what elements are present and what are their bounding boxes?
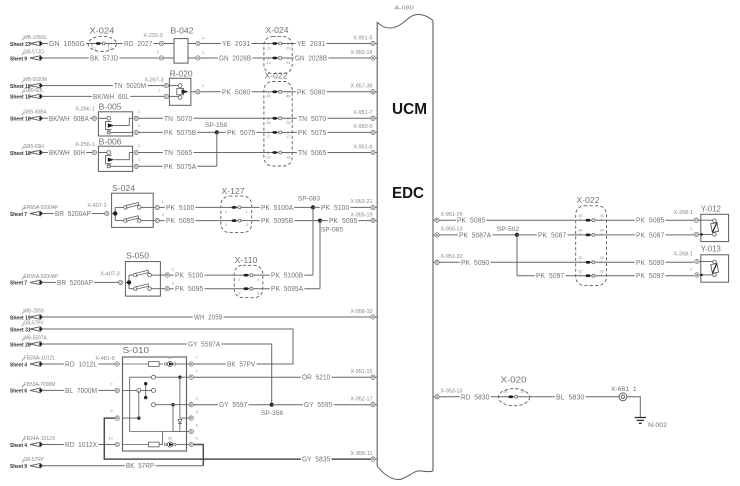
wire PK 5085 (to Y-012) (607, 216, 694, 225)
svg-text:GN 1050G: GN 1050G (49, 39, 85, 48)
svg-text:Y-013: Y-013 (701, 244, 721, 254)
svg-text:GY 5597: GY 5597 (219, 400, 247, 409)
connector X-110 (234, 255, 263, 297)
svg-text:TN 5070: TN 5070 (298, 114, 326, 123)
wire YE 2031 (to X-024) (200, 39, 264, 48)
pin 2 of R-020 (191, 83, 205, 94)
svg-text:PK 5095: PK 5095 (166, 216, 194, 225)
svg-text:PK 5075: PK 5075 (298, 128, 326, 137)
sheet ref 9 GB-57RP (10, 457, 44, 470)
svg-text:GY 5597A: GY 5597A (188, 340, 220, 349)
pin 2 of B-006 (134, 143, 141, 155)
svg-text:SP-083: SP-083 (298, 195, 321, 202)
wire BK 57RP (pin 9 route) (42, 445, 204, 471)
svg-text:X-110: X-110 (235, 255, 258, 265)
valve Y-013 (700, 244, 728, 283)
svg-text:17: 17 (286, 134, 291, 139)
svg-text:PK 5100: PK 5100 (321, 203, 349, 212)
pin 3 of S-050 (160, 280, 174, 291)
sheet ref 9 GB-57JD (10, 49, 44, 62)
svg-text:Sheet 4: Sheet 4 (10, 443, 28, 449)
svg-text:YE 2031: YE 2031 (222, 39, 250, 48)
pin 1 of S-010 (187, 368, 199, 379)
connector X-950-6 (band stub) (353, 124, 377, 134)
pressure sensor B-006 (98, 136, 132, 171)
wire TN 5070 (to UCM) (292, 114, 371, 123)
svg-text:X-268-1: X-268-1 (674, 251, 694, 257)
svg-text:PK 5090: PK 5090 (636, 258, 664, 267)
svg-text:Sheet 7: Sheet 7 (10, 281, 27, 287)
svg-text:PK 5097: PK 5097 (636, 271, 664, 280)
pin 2 of S-010 (110, 381, 119, 392)
connector X-951-15 (band stub) (351, 369, 378, 379)
resistor unit R-020 (169, 69, 193, 106)
pin 7 of S-010 (187, 355, 199, 366)
splice SP-502 (497, 226, 520, 276)
svg-text:X-020: X-020 (501, 375, 527, 385)
svg-text:A-080: A-080 (394, 6, 414, 12)
wire PK 5095 (to UCM) (320, 216, 371, 225)
valve Y-012 (700, 203, 728, 241)
connector X-407-2 pin (87, 203, 109, 216)
connector X-956-10 (band stub) (351, 309, 378, 319)
pin 3 of B-005 (134, 123, 141, 134)
sheet ref 18 GB5-60H (10, 144, 44, 157)
connector X-024 (first) (88, 26, 116, 52)
pin 2 (X-233) (157, 49, 174, 60)
wire PK 5100 (to X-127) (160, 203, 221, 212)
sheet ref 28 WB-5597A (10, 335, 47, 348)
svg-text:34: 34 (599, 228, 604, 233)
svg-text:X-407-2: X-407-2 (87, 203, 106, 209)
pin 3 of S-024 (153, 212, 164, 223)
svg-text:Sheet 9: Sheet 9 (10, 464, 28, 470)
svg-text:TN 5020M: TN 5020M (114, 81, 146, 90)
svg-text:GB-57RP: GB-57RP (24, 457, 45, 463)
svg-text:GN 2028B: GN 2028B (219, 54, 251, 63)
svg-text:24: 24 (286, 60, 291, 65)
svg-text:X-951-15: X-951-15 (351, 369, 373, 375)
wire RD 5830 (439, 392, 498, 401)
svg-text:BK 57PV: BK 57PV (227, 360, 255, 369)
wire BL 7000M (42, 386, 115, 395)
svg-text:PK 5090: PK 5090 (461, 258, 489, 267)
connector X-953-21 (band stub) (351, 199, 378, 209)
switch S-050 (125, 251, 160, 297)
sheet ref 19 WB-2059 (10, 308, 44, 321)
svg-text:PK 5075: PK 5075 (227, 128, 255, 137)
svg-text:GB5-60H: GB5-60H (24, 144, 45, 150)
svg-text:28: 28 (286, 154, 291, 159)
svg-text:BK/WH 60BA: BK/WH 60BA (49, 114, 89, 123)
svg-text:Sheet 31: Sheet 31 (10, 327, 31, 333)
svg-text:WH 2059: WH 2059 (194, 313, 222, 322)
connector X-950-16 (band stub) (351, 50, 378, 60)
svg-text:BL 7000M: BL 7000M (65, 386, 97, 395)
svg-text:FB24A-1012L: FB24A-1012L (24, 355, 56, 361)
svg-text:GY 5595: GY 5595 (304, 400, 332, 409)
connector X-268-1 pin (Y-012) (674, 210, 701, 222)
connector X-268-1 pin (Y-013) (674, 251, 701, 263)
svg-text:BL 5830: BL 5830 (556, 392, 584, 401)
svg-text:PK 5095A: PK 5095A (271, 284, 303, 293)
svg-text:X-268-1: X-268-1 (674, 210, 694, 216)
svg-text:Sheet 4: Sheet 4 (10, 362, 28, 368)
svg-text:X-661 1: X-661 1 (611, 386, 637, 393)
svg-text:GY 5835: GY 5835 (302, 455, 330, 464)
svg-text:BK/WH 60H: BK/WH 60H (49, 148, 85, 157)
connector X-233-3 pin (143, 33, 174, 46)
wire PK 5100 (to UCM) (313, 203, 371, 212)
sheet ref 4 FB24A-1012X (10, 436, 56, 449)
svg-text:WB-5020M: WB-5020M (24, 77, 47, 83)
relay B-042 (171, 26, 194, 64)
wire PK 5087A (439, 230, 517, 239)
wire PK 5097 (to X-022) (517, 271, 576, 280)
connector X-957-36 (band stub) (351, 84, 378, 94)
wire BK 57PV (sheet 31 to S-010 pin 7) (42, 329, 294, 369)
wire RD 2027 (116, 39, 158, 48)
splice SP-085 (318, 219, 344, 289)
wire GY 5835 (pin 5 route) (104, 418, 370, 464)
wire PK 5100A (252, 203, 313, 212)
svg-text:13: 13 (266, 45, 271, 50)
svg-text:X-955-19: X-955-19 (351, 212, 373, 218)
svg-text:X-953-13: X-953-13 (441, 389, 463, 395)
svg-text:RD 2027: RD 2027 (124, 39, 152, 48)
svg-text:RD 1012X: RD 1012X (65, 440, 97, 449)
svg-text:X-951-6: X-951-6 (353, 144, 372, 150)
wire TN 5070 (to X-022) (139, 114, 264, 123)
splice SP-158 (205, 122, 228, 167)
wire BL 5830 (530, 392, 620, 401)
sheet ref 31 GB-57PV (10, 320, 44, 333)
connector X-952-17 (band stub) (351, 397, 378, 407)
wire TN 5065 (to X-022) (139, 148, 264, 157)
svg-text:S-010: S-010 (123, 345, 150, 355)
wire YE 2031 (to UCM) (292, 39, 371, 48)
svg-text:PK 5095: PK 5095 (175, 284, 203, 293)
wire PK 5095 (to X-110) (170, 284, 235, 293)
wire PK 5100 (to X-110) (170, 271, 235, 280)
svg-text:PK 5100B: PK 5100B (271, 271, 303, 280)
svg-text:34: 34 (578, 228, 583, 233)
wire PK 5100B (263, 271, 313, 280)
svg-text:35: 35 (578, 213, 583, 218)
svg-text:X-022: X-022 (577, 195, 600, 205)
sheet ref 18 GB5-60L (10, 88, 44, 101)
wire PK 5075 (to UCM) (292, 128, 371, 137)
splice SP-083 (298, 195, 321, 275)
wire TN 5065 (to UCM) (292, 148, 371, 157)
ground N-002 (635, 418, 668, 430)
svg-text:SP-158: SP-158 (205, 122, 228, 129)
wire GY 5597 (194, 400, 272, 409)
pin 1 of R-020 (158, 88, 168, 99)
svg-text:PK 5087A: PK 5087A (459, 230, 491, 239)
svg-text:B-005: B-005 (99, 102, 122, 112)
wire RD 1012X (42, 440, 115, 449)
splice SP-356 (261, 403, 284, 418)
svg-text:PK 5080: PK 5080 (222, 87, 250, 96)
svg-text:PK 5080: PK 5080 (297, 87, 325, 96)
svg-text:26: 26 (286, 120, 291, 125)
svg-text:GN 2028B: GN 2028B (295, 54, 327, 63)
sheet ref 4 FB24A-1012L (10, 355, 56, 368)
pin 2 of Y-012 (690, 226, 701, 237)
svg-text:PK 5100: PK 5100 (175, 271, 203, 280)
svg-text:X-127: X-127 (222, 186, 245, 196)
wire GN 1050G (42, 39, 89, 48)
svg-text:32: 32 (578, 269, 583, 274)
svg-text:10: 10 (108, 435, 113, 440)
pin 9 of S-010 (187, 435, 199, 446)
svg-text:33: 33 (578, 255, 583, 260)
svg-text:Sheet 7: Sheet 7 (10, 212, 27, 218)
svg-text:YE 2031: YE 2031 (297, 39, 325, 48)
wire PK 5087 (to Y-012 pin 2) (607, 230, 694, 239)
pressure sensor B-005 (98, 102, 132, 136)
svg-text:Sheet 6: Sheet 6 (10, 389, 28, 395)
wire GY 5595 (272, 400, 371, 409)
svg-text:TN 5070: TN 5070 (164, 114, 192, 123)
svg-text:PK 5085: PK 5085 (457, 216, 485, 225)
svg-text:X-957-36: X-957-36 (351, 84, 373, 90)
svg-text:Y-012: Y-012 (701, 203, 721, 213)
svg-text:FB24A-1012X: FB24A-1012X (24, 436, 56, 442)
connector X-951-29 (band stub) (433, 212, 463, 222)
pin 3 of B-006 (134, 157, 141, 168)
svg-text:12: 12 (91, 46, 96, 51)
connector X-955-19 (band stub) (351, 212, 378, 222)
svg-text:PK 5100: PK 5100 (166, 203, 194, 212)
svg-text:Sheet 9: Sheet 9 (10, 56, 28, 62)
wire PK 5075 (to X-022) (217, 128, 264, 137)
svg-text:Sheet 23: Sheet 23 (10, 42, 31, 48)
sheet ref 18 WB-5020M (10, 77, 47, 90)
wire GY 5597A (42, 340, 272, 405)
svg-text:Sheet 28: Sheet 28 (10, 342, 31, 348)
connector X-950-13 (band stub) (433, 227, 463, 237)
svg-text:PK 5075A: PK 5075A (164, 162, 196, 171)
svg-text:RD 5830: RD 5830 (461, 392, 489, 401)
pin 3 of S-010 (187, 396, 199, 407)
wire PK 5075B (139, 128, 217, 137)
svg-text:46: 46 (266, 94, 271, 99)
connector X-951-7 (band stub) (353, 110, 377, 120)
svg-text:39: 39 (520, 389, 525, 394)
wire PK 5090 (to X-022) (439, 258, 575, 267)
svg-text:X-955-11: X-955-11 (351, 451, 373, 457)
svg-text:PK 5097: PK 5097 (536, 271, 564, 280)
svg-text:PK 5087: PK 5087 (636, 230, 664, 239)
pin 1 of B-042 (188, 50, 205, 60)
wire GN 2028B (to X-024) (200, 54, 264, 63)
wire GN 2028B (to UCM) (292, 54, 371, 63)
sheet ref 6 FB53A-7000M (10, 382, 55, 395)
pin 2 of Y-013 (690, 267, 701, 278)
wire BK/WH 60L (42, 92, 165, 101)
svg-text:Sheet 18: Sheet 18 (10, 117, 31, 123)
wire BK 57JD (42, 54, 159, 63)
svg-text:BK/WH 60L: BK/WH 60L (93, 92, 129, 101)
svg-text:PK 5087: PK 5087 (538, 230, 566, 239)
svg-text:BR 5200AP: BR 5200AP (57, 278, 93, 287)
svg-text:R-020: R-020 (170, 69, 193, 79)
svg-text:WB-2059: WB-2059 (24, 308, 44, 314)
pin 1 of S-024 (153, 199, 164, 210)
svg-text:X-481-9: X-481-9 (95, 356, 114, 362)
pin 1 of S-050 (160, 267, 174, 278)
svg-text:ER65A-5200AP: ER65A-5200AP (24, 205, 59, 211)
wire PK 5095B (252, 216, 320, 225)
svg-text:X-256-1: X-256-1 (75, 142, 94, 148)
connector X-024 (second) (264, 25, 292, 73)
switch S-024 (112, 183, 154, 228)
svg-text:SP-356: SP-356 (261, 410, 284, 417)
wire PK 5080 (to UCM) (292, 87, 371, 96)
connector X-020 (498, 375, 529, 406)
connector X-407-3 pin (100, 272, 122, 285)
svg-text:X-952-17: X-952-17 (351, 397, 373, 403)
svg-text:26: 26 (168, 355, 173, 360)
svg-text:WB-1050G: WB-1050G (24, 35, 47, 41)
pin 10 of S-010 (108, 435, 119, 446)
svg-text:FB53A-7000M: FB53A-7000M (24, 382, 56, 388)
svg-text:35: 35 (599, 213, 604, 218)
svg-text:WB-5597A: WB-5597A (24, 335, 48, 341)
svg-text:SP-502: SP-502 (497, 226, 520, 233)
svg-text:B-042: B-042 (171, 26, 194, 36)
svg-text:X-950-6: X-950-6 (353, 124, 372, 130)
connector X-951-5 (band stub) (353, 35, 377, 45)
connector X-481-9 pin (95, 356, 119, 366)
svg-text:14: 14 (266, 60, 271, 65)
pin 4 of S-010 (187, 409, 199, 420)
svg-text:33: 33 (599, 255, 604, 260)
svg-text:BK 57RP: BK 57RP (126, 461, 154, 470)
wire to ground (627, 397, 640, 418)
svg-text:X-956-10: X-956-10 (351, 309, 373, 315)
wire BR 5200AP (S-050) (42, 278, 119, 287)
control unit band A-080 (377, 6, 433, 480)
svg-text:X-407-3: X-407-3 (100, 272, 119, 278)
connector X-266-1 pin (75, 107, 96, 121)
wire TN 5020M (42, 81, 165, 90)
svg-text:UCM: UCM (392, 101, 427, 118)
pin 5 of S-010 (110, 408, 119, 420)
pin 6 of S-010 (187, 422, 199, 433)
svg-text:RD 1012L: RD 1012L (65, 360, 97, 369)
wire WH 2059 (42, 313, 371, 322)
svg-text:X-024: X-024 (90, 26, 115, 36)
connector X-127 (221, 186, 252, 232)
wire PK 5095 (to X-127) (160, 216, 221, 225)
svg-text:OR 5210: OR 5210 (302, 373, 330, 382)
wire PK 5090 (to Y-013) (607, 258, 694, 267)
svg-text:ER55A-5200AP: ER55A-5200AP (24, 274, 59, 280)
svg-text:X-266-1: X-266-1 (75, 107, 94, 113)
svg-text:17: 17 (266, 134, 271, 139)
svg-text:Sheet 18: Sheet 18 (10, 151, 31, 157)
connector X-267-3 pin (144, 77, 168, 88)
wire PK 5085 (to X-022) (439, 216, 575, 225)
svg-text:PK 5095B: PK 5095B (261, 216, 293, 225)
wire BR 5200AP (S-024) (42, 209, 105, 218)
svg-text:EDC: EDC (392, 185, 424, 202)
svg-text:Sheet 18: Sheet 18 (10, 95, 31, 101)
wire BK/WH 60BA (42, 114, 93, 123)
pin 2 of B-005 (134, 109, 141, 121)
svg-text:S-050: S-050 (126, 251, 149, 261)
sheet ref 18 GB5-60BA (10, 110, 47, 123)
pin 4 of B-042 (188, 35, 205, 45)
sheet ref 7 ER65A-5200AP (10, 205, 59, 218)
svg-text:X-951-33: X-951-33 (441, 254, 463, 260)
wire PK 5095A (263, 284, 320, 293)
connector X-951-33 (band stub) (433, 254, 463, 264)
svg-text:TN 5065: TN 5065 (164, 148, 192, 157)
connector X-256-1 pin (75, 142, 96, 155)
svg-text:23: 23 (286, 45, 291, 50)
wire PK 5097 (to Y-013 pin 2) (607, 271, 694, 280)
wire RD 1012L (42, 360, 115, 369)
svg-text:PK 5085: PK 5085 (636, 216, 664, 225)
switch unit S-010 (123, 345, 187, 451)
connector X-022 (right) (576, 195, 607, 285)
svg-text:26: 26 (266, 120, 271, 125)
svg-text:39: 39 (503, 389, 508, 394)
svg-text:PK 5075B: PK 5075B (164, 128, 196, 137)
svg-text:X-022: X-022 (265, 71, 288, 81)
wire PK 5087 (to X-022) (517, 230, 576, 239)
connector X-953-13 (band stub) (433, 389, 463, 399)
svg-text:26: 26 (168, 436, 173, 441)
svg-text:12: 12 (108, 46, 113, 51)
svg-text:PK 5100A: PK 5100A (261, 203, 293, 212)
svg-text:GB5-60BA: GB5-60BA (24, 110, 48, 116)
connector X-955-11 (band stub) (351, 451, 378, 461)
svg-text:GB-57PV: GB-57PV (24, 320, 45, 326)
svg-text:X-233-3: X-233-3 (143, 33, 162, 39)
svg-text:TN 5065: TN 5065 (298, 148, 326, 157)
svg-text:X-951-5: X-951-5 (353, 35, 372, 41)
svg-text:X-267-3: X-267-3 (144, 77, 163, 83)
wire PK 5080 (to X-022) (200, 87, 264, 96)
svg-text:S-024: S-024 (112, 183, 135, 193)
sheet ref 23 WB-1050G (10, 35, 47, 48)
svg-text:GB-57JD: GB-57JD (24, 49, 45, 55)
ring terminal X-661 pin 1 (611, 386, 637, 400)
svg-text:X-951-7: X-951-7 (353, 110, 372, 116)
connector X-951-6 (band stub) (353, 144, 377, 154)
svg-text:X-950-16: X-950-16 (351, 50, 373, 56)
connector X-022 (left) (264, 71, 292, 167)
svg-text:BK 57JD: BK 57JD (90, 54, 118, 63)
svg-text:BR 5200AP: BR 5200AP (55, 209, 91, 218)
sheet ref 7 ER55A-5200AP (10, 274, 59, 287)
svg-text:X-953-21: X-953-21 (351, 199, 373, 205)
wire OR 5210 (194, 373, 371, 382)
svg-text:N-002: N-002 (648, 422, 668, 429)
wire BK/WH 60H (42, 148, 93, 157)
svg-text:46: 46 (286, 94, 291, 99)
svg-text:28: 28 (266, 154, 271, 159)
svg-text:SP-085: SP-085 (321, 227, 344, 234)
svg-text:GB5-60L: GB5-60L (24, 88, 44, 94)
svg-text:X-024: X-024 (266, 25, 289, 35)
wire PK 5075A (139, 162, 217, 171)
